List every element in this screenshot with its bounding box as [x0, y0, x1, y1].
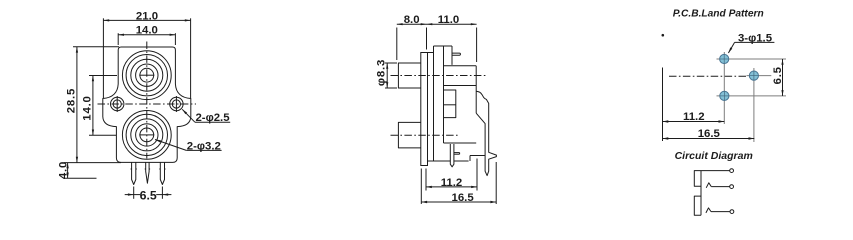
circuit bot terminal line	[711, 211, 730, 213]
dimension 28.5 extension lines	[73, 46, 119, 48]
dimension 4.0	[67, 163, 69, 179]
svg-text:6.5: 6.5	[140, 188, 157, 202]
front view vertical centerline	[146, 42, 148, 159]
pad right	[749, 71, 758, 80]
side dim 8.0 extension lines	[396, 28, 398, 61]
pad bottom	[720, 91, 729, 100]
side view cavity ceiling	[444, 142, 477, 144]
pad crossline vertical gray right	[753, 68, 755, 142]
front view body outline	[103, 47, 191, 162]
top jack center cross	[139, 74, 154, 76]
front view pins	[132, 162, 136, 184]
side dim 11.0	[427, 23, 477, 25]
dimension 14.0 left extension lines	[89, 75, 117, 77]
circuit top terminal line	[701, 170, 730, 172]
dimension 6.5 bottom	[134, 194, 141, 196]
side dim 16.5	[421, 201, 496, 203]
circuit bottom shell rect	[694, 196, 701, 215]
svg-text:Circuit Diagram: Circuit Diagram	[675, 150, 753, 162]
svg-text:6.5: 6.5	[772, 66, 784, 84]
circuit bot terminal circle	[730, 210, 734, 214]
land dim 16.5	[663, 138, 755, 140]
side view leg foot lines	[470, 155, 485, 157]
side dim 8.0	[397, 23, 427, 25]
bottom jack center cross	[139, 134, 154, 136]
right mounting hole	[172, 100, 180, 108]
dimension 14.0 left	[92, 76, 94, 136]
side view pin side tick	[454, 152, 460, 154]
pad crossline horizontal gray bottom	[717, 95, 787, 97]
svg-text:φ8.3: φ8.3	[375, 59, 387, 86]
side view right face vertical	[451, 46, 453, 65]
side view bottom barrel centerline	[391, 134, 461, 136]
svg-text:8.0: 8.0	[404, 14, 420, 26]
dimension 14.0 top extension lines	[117, 33, 119, 45]
side view top barrel	[398, 63, 420, 88]
svg-text:2-φ3.2: 2-φ3.2	[187, 140, 221, 152]
dimension 21.0	[103, 19, 190, 21]
side view ground leg	[475, 66, 477, 113]
bottom RCA jack circles	[122, 110, 171, 159]
svg-text:14.0: 14.0	[136, 25, 158, 37]
dimension 21.0 extension lines	[102, 18, 104, 98]
side view middle lug block internal line	[444, 104, 456, 106]
side view bottom edge	[428, 160, 451, 162]
svg-text:4.0: 4.0	[57, 161, 69, 179]
land dim 11.2	[663, 121, 725, 123]
side view body internal vertical 2	[443, 46, 445, 143]
side view plate top step	[428, 52, 434, 54]
svg-text:P.C.B.Land Pattern: P.C.B.Land Pattern	[673, 8, 764, 19]
svg-text:21.0: 21.0	[136, 10, 158, 22]
svg-text:28.5: 28.5	[66, 88, 78, 113]
dimension 4.0 extension line	[64, 177, 97, 179]
side dim 11.2 extension lines	[425, 169, 427, 191]
pad crossline horizontal gray mid	[747, 75, 772, 77]
circuit contact chevron 2	[706, 208, 711, 213]
circuit mid terminal line	[711, 186, 729, 188]
svg-text:2-φ2.5: 2-φ2.5	[195, 112, 230, 124]
svg-text:16.5: 16.5	[698, 128, 721, 140]
left mounting hole	[113, 100, 121, 108]
svg-text:11.2: 11.2	[441, 177, 463, 189]
pad top	[720, 54, 729, 63]
svg-text:11.2: 11.2	[683, 111, 705, 123]
side view top terminal tab	[452, 53, 460, 55]
side view body internal vertical 1	[433, 46, 435, 161]
top RCA jack circles	[122, 51, 171, 100]
land dim 6.5	[782, 59, 784, 96]
side view body top edge	[434, 45, 453, 47]
circuit top terminal circle	[730, 169, 734, 173]
side view wide block	[444, 65, 477, 67]
pad crossline vertical gray	[723, 52, 725, 124]
side view block internal line	[444, 85, 477, 87]
svg-text:11.0: 11.0	[438, 14, 460, 26]
side view top barrel centerline	[391, 75, 488, 77]
svg-text:14.0: 14.0	[81, 95, 93, 120]
side dim 16.5 extension lines	[420, 169, 422, 205]
front view horizontal centerline through mounting holes	[98, 103, 197, 105]
label 2-phi2.5 with leader	[195, 121, 230, 123]
circuit top shell rect	[694, 171, 701, 187]
circuit contact chevron 1	[706, 183, 711, 188]
side dim phi8.3 extension lines	[385, 62, 397, 64]
side dim phi8.3	[386, 63, 388, 88]
svg-text:16.5: 16.5	[452, 192, 475, 204]
side view middle lug block	[444, 90, 456, 118]
dimension 28.5	[76, 47, 78, 163]
svg-text:3-φ1.5: 3-φ1.5	[738, 32, 773, 44]
side view bottom pin	[450, 144, 454, 167]
side view mounting plate	[421, 53, 428, 166]
dimension 6.5 extension lines	[133, 187, 135, 199]
circuit mid terminal circle	[730, 185, 734, 189]
side view bottom barrel	[398, 122, 420, 147]
label 2-phi3.2 with leader	[186, 149, 221, 151]
land pattern horizontal centerline	[669, 75, 747, 77]
side dim 11.2	[426, 186, 477, 188]
label 3-phi1.5 with leader	[735, 41, 775, 43]
reference dot	[662, 34, 665, 37]
dimension 14.0 top	[118, 34, 175, 36]
circuit shell bus	[700, 171, 702, 216]
pad crossline horizontal gray top	[717, 58, 787, 60]
land pattern left reference line	[662, 68, 664, 142]
